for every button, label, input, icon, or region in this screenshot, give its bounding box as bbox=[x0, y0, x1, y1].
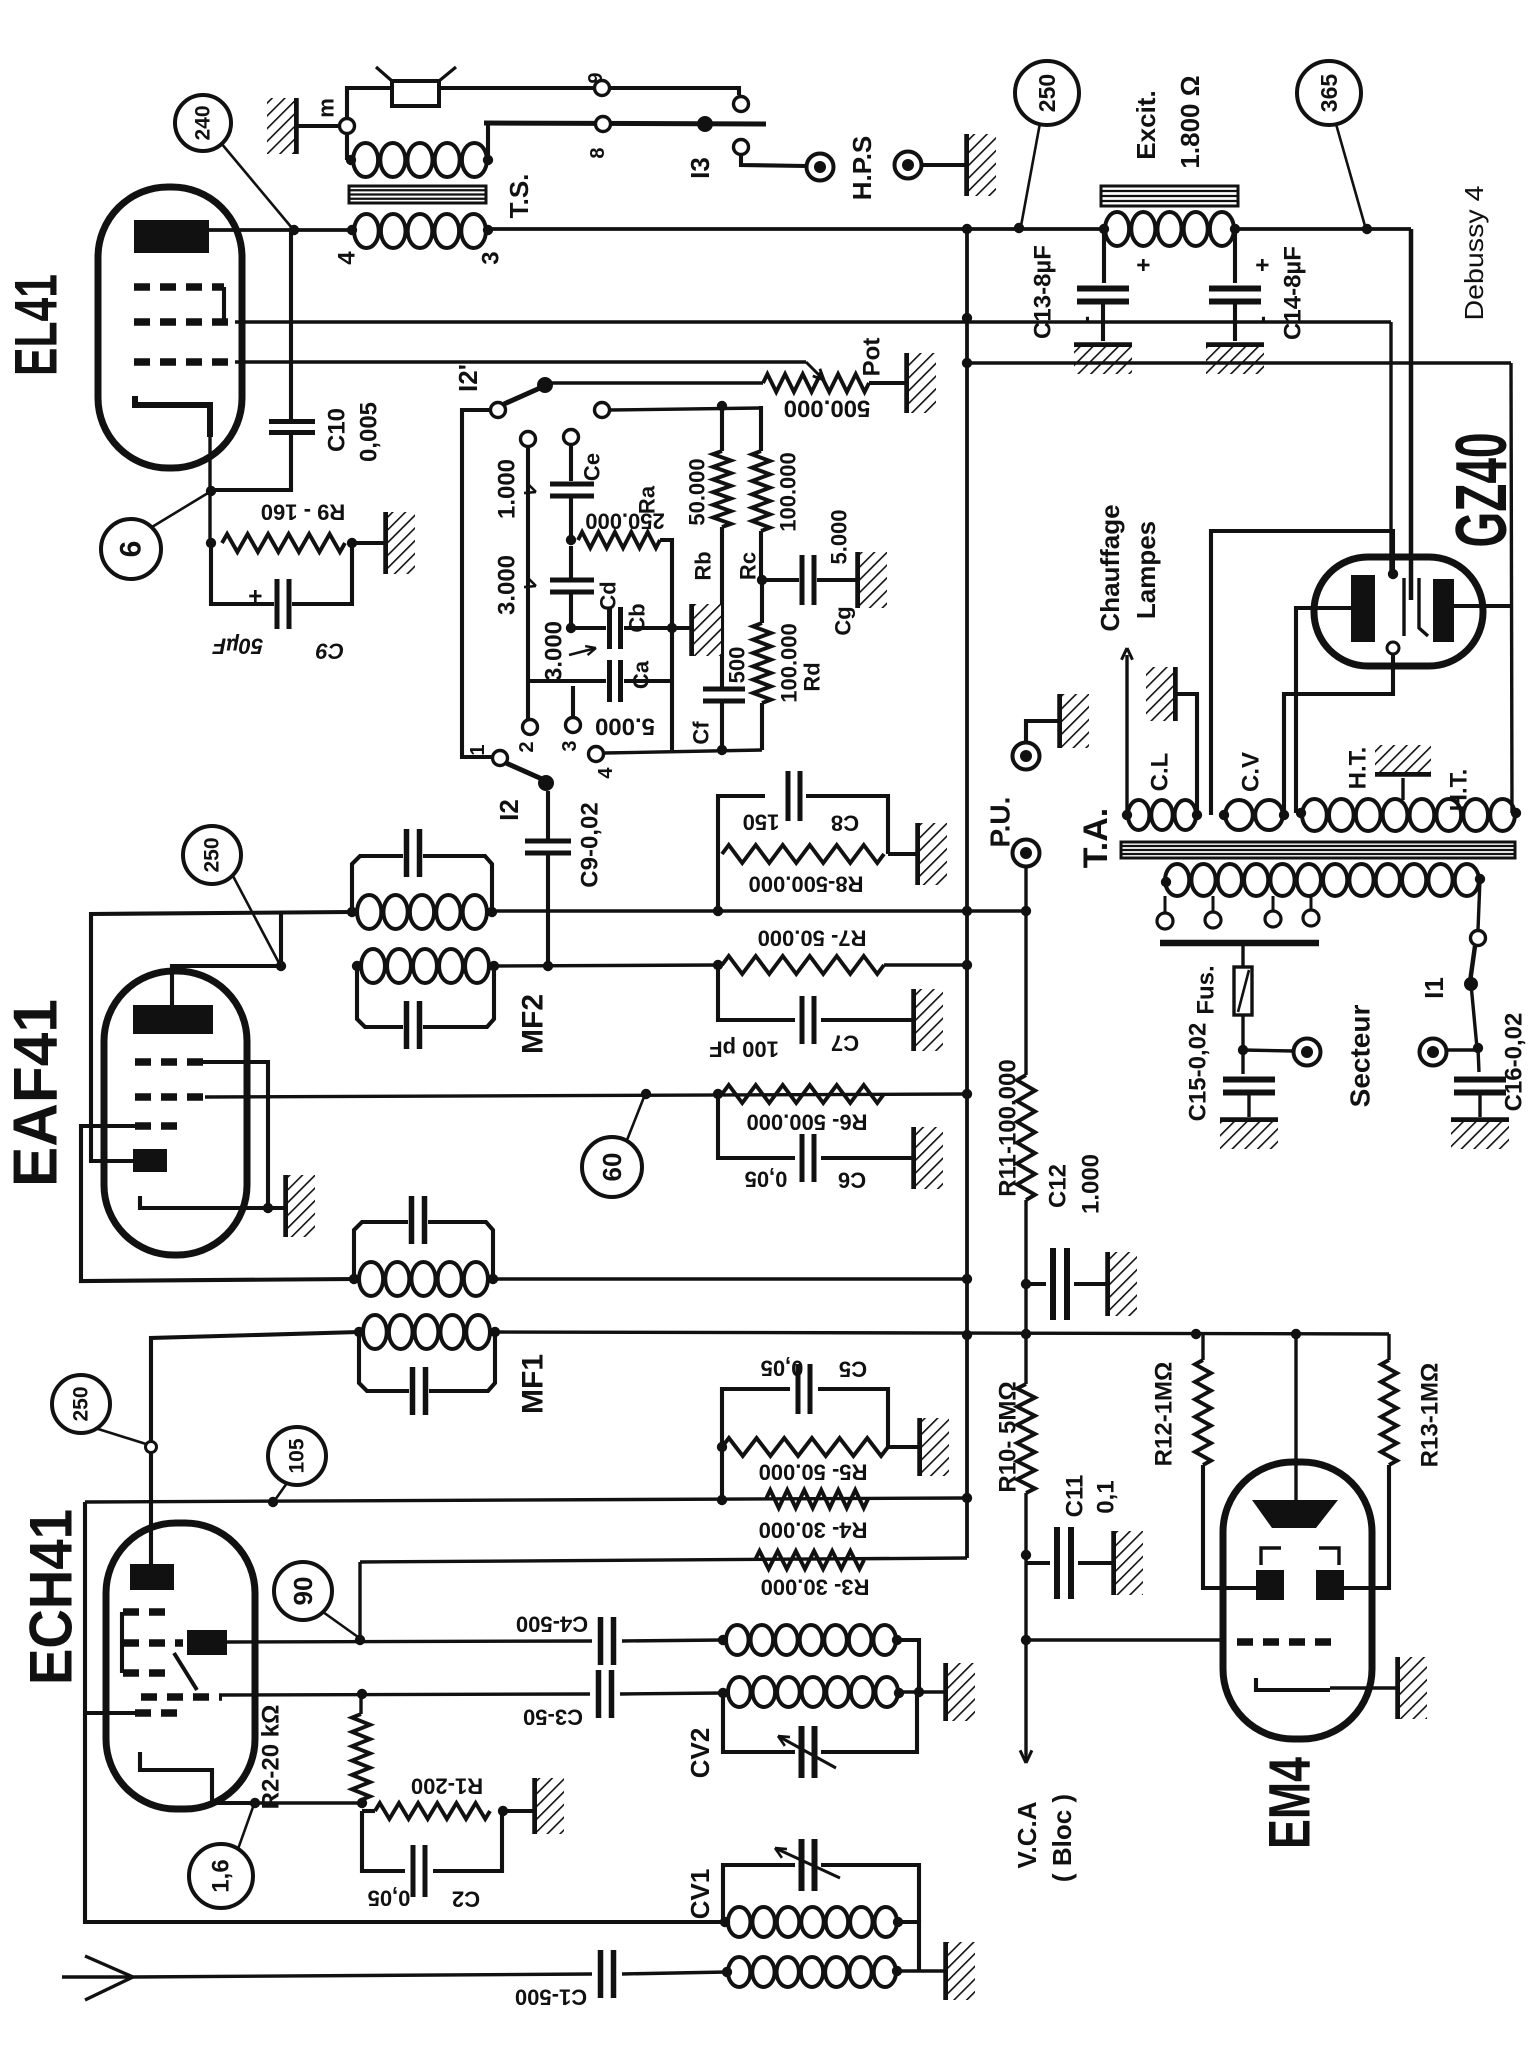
tube EM4 envelope bbox=[1223, 1462, 1372, 1739]
terminal col1 top bbox=[521, 432, 536, 447]
CV1 arrow bbox=[775, 1848, 840, 1878]
wire H.P.S to ground bbox=[922, 163, 965, 167]
svg-text:T.A.: T.A. bbox=[1077, 808, 1115, 868]
svg-text:Secteur: Secteur bbox=[1345, 1005, 1376, 1108]
wire 90 line bbox=[360, 1558, 967, 1562]
node C5 box bbox=[717, 1495, 727, 1505]
wire VCA arrow bbox=[1024, 1640, 1027, 1755]
node C11 bbox=[1021, 1550, 1031, 1560]
ground R9 bbox=[383, 512, 389, 574]
svg-text:C8: C8 bbox=[831, 811, 859, 836]
wire 105 line bbox=[85, 1498, 967, 1502]
svg-text:3: 3 bbox=[478, 251, 505, 264]
wire 322 corner down to GZ40 bbox=[1389, 322, 1392, 574]
capacitor C1-500 bbox=[598, 1950, 604, 1998]
capacitor MF2 secondary bbox=[404, 1001, 410, 1049]
ground Pot bbox=[904, 353, 910, 413]
coil antenna primary bbox=[728, 1957, 750, 1987]
callout line 60 bbox=[627, 1097, 644, 1140]
wire grid1 line y=362 to pot wiper bbox=[235, 360, 806, 363]
svg-text:R4- 30.000: R4- 30.000 bbox=[759, 1518, 868, 1543]
svg-text:2: 2 bbox=[516, 741, 538, 752]
tube EAF41 grid3 bracket bbox=[203, 1062, 268, 1208]
resistor R11-100.000 bbox=[1017, 1075, 1035, 1200]
MF2 secondary tank box bbox=[357, 966, 403, 1027]
svg-text:R11-100.000: R11-100.000 bbox=[995, 1059, 1022, 1196]
wire col1 vertical bbox=[526, 446, 530, 719]
coil T.S. primary bbox=[346, 155, 356, 165]
svg-text:Cf: Cf bbox=[689, 721, 714, 745]
wire Ce to Ra node bbox=[569, 496, 573, 540]
wire R1 ground bbox=[503, 1809, 533, 1813]
CV2 arrow bbox=[778, 1736, 836, 1768]
capacitor MF1 secondary bbox=[410, 1367, 416, 1415]
tube EL41 envelope bbox=[98, 187, 242, 468]
callout line 105 bbox=[275, 1483, 287, 1500]
svg-text:Chauffage: Chauffage bbox=[1095, 504, 1125, 631]
callout line 250 mid bbox=[233, 876, 279, 963]
tube EAF41 grid cap bbox=[133, 1149, 167, 1172]
wire PU upper to ground bbox=[1026, 721, 1058, 742]
wire anode bus y=230 bbox=[200, 228, 352, 232]
CV1 variable capacitor box bbox=[723, 1865, 795, 1922]
GZ40 filament bottom terminal bbox=[1387, 642, 1399, 654]
node 240 callout junction bbox=[289, 225, 299, 235]
coil C.V winding bbox=[1225, 800, 1253, 830]
resistor R3-30.000 on 90 line bbox=[755, 1551, 864, 1569]
svg-text:C.L: C.L bbox=[1147, 753, 1174, 792]
wire rail segment y=363 to right edge bbox=[967, 361, 1511, 364]
svg-text:C14-8µF: C14-8µF bbox=[1280, 246, 1307, 340]
capacitor Ca bbox=[528, 679, 606, 683]
svg-text:H.T.: H.T. bbox=[1345, 747, 1372, 790]
svg-text:Cd: Cd bbox=[596, 581, 621, 610]
ground C.L bbox=[1172, 667, 1178, 721]
svg-text:H.P.S: H.P.S bbox=[847, 136, 877, 201]
HT center tap ground bbox=[1401, 778, 1404, 800]
wire C10 drop from bus bbox=[289, 230, 293, 419]
svg-text:+: + bbox=[243, 589, 270, 603]
wire C9' to MF2 line bbox=[546, 853, 550, 966]
wire 90 vertical bbox=[358, 1562, 361, 1640]
svg-text:50.000: 50.000 bbox=[685, 458, 710, 525]
ground m terminal bbox=[293, 98, 299, 154]
wire bus secondary to Excit bbox=[488, 227, 1104, 231]
jack H.P.S right bbox=[895, 152, 922, 179]
node cathode bracket bbox=[263, 1203, 273, 1213]
tube EAF41 grid1 dashed bbox=[135, 1122, 183, 1130]
svg-text:Cb: Cb bbox=[625, 603, 650, 632]
GZ40 filament bbox=[1402, 578, 1405, 636]
svg-text:m: m bbox=[314, 98, 339, 118]
svg-text:Rc: Rc bbox=[736, 552, 761, 580]
capacitor C16-0,02 bbox=[1478, 1048, 1479, 1072]
ground R8 bbox=[915, 823, 921, 885]
capacitor C6 0,05 bbox=[718, 1094, 795, 1158]
tube EAF41 anode plate bbox=[133, 1005, 213, 1034]
coil CV1 tank bbox=[720, 1917, 730, 1927]
capacitor C10 0,005 bbox=[269, 419, 315, 424]
I3 lower contact bbox=[734, 140, 749, 155]
tube EL41 grid 2 bracket bbox=[222, 287, 226, 322]
svg-text:1.800 Ω: 1.800 Ω bbox=[1175, 75, 1205, 168]
GZ40 filament top node bbox=[1388, 569, 1398, 579]
svg-text:150: 150 bbox=[743, 810, 780, 835]
circle 365 bbox=[1297, 61, 1361, 125]
svg-text:3: 3 bbox=[559, 740, 581, 751]
coil Excit field 1800 ohm bbox=[1105, 212, 1129, 246]
wire MF1 secondary right long line bbox=[495, 1332, 1389, 1334]
node 60 callout bbox=[641, 1089, 651, 1099]
ground C14 bbox=[1206, 342, 1264, 348]
resistor Ra 250.000 bbox=[578, 532, 660, 548]
coil MF2 secondary bbox=[352, 961, 362, 971]
svg-text:R8-500.000: R8-500.000 bbox=[749, 872, 864, 897]
capacitor C9 50uF electrolytic bbox=[211, 543, 274, 604]
wire filament top to C.V left bbox=[1211, 531, 1393, 815]
tube EAF41 cathode bbox=[140, 1196, 284, 1208]
node 250 mid callout bbox=[276, 961, 286, 971]
terminal 2 bbox=[523, 720, 538, 735]
tube ECH41 cap diagonal bbox=[174, 1653, 197, 1690]
capacitor C15-0,02 bbox=[1241, 1050, 1244, 1074]
tube EL41 grid 3 (dashed) bbox=[134, 283, 224, 291]
svg-text:R2-20 kΩ: R2-20 kΩ bbox=[258, 1705, 285, 1810]
wire EM4 plate drop bbox=[1294, 1334, 1297, 1502]
capacitor C2 0,05 bbox=[362, 1811, 405, 1871]
svg-text:GZ40: GZ40 bbox=[1442, 433, 1522, 548]
EM4 cathode bbox=[1256, 1678, 1330, 1690]
svg-text:R7- 50.000: R7- 50.000 bbox=[758, 926, 867, 951]
wire I1 node to Secteur right jack bbox=[1447, 1048, 1478, 1051]
wire I2' pivot to Pot bbox=[545, 381, 763, 384]
node C12 bbox=[1021, 1279, 1031, 1289]
tube ECH41 grid5 dashed bbox=[135, 1709, 183, 1717]
capacitor C12 1.000 bbox=[1026, 1282, 1046, 1286]
potentiometer Pot 500.000 bbox=[763, 374, 869, 392]
svg-text:0,005: 0,005 bbox=[356, 402, 383, 462]
capacitor C3-50 bbox=[596, 1670, 602, 1718]
coil T.S. secondary bbox=[347, 225, 357, 235]
capacitor C7 100pF bbox=[718, 965, 795, 1020]
svg-text:I3: I3 bbox=[685, 157, 715, 179]
terminal 8 bbox=[596, 117, 611, 132]
resistor R12-1M bbox=[1201, 1334, 1204, 1360]
tube ECH41 grid cap bbox=[187, 1630, 227, 1655]
svg-text:Ra: Ra bbox=[635, 485, 660, 514]
ground Cg bbox=[855, 552, 861, 608]
svg-text:4: 4 bbox=[595, 767, 617, 779]
svg-text:C9-0,02: C9-0,02 bbox=[577, 802, 604, 887]
tube EL41 grid 1 (dashed) bbox=[134, 358, 235, 366]
jack P.U. lower bbox=[1013, 840, 1040, 867]
fuse Fus. bbox=[1241, 943, 1244, 967]
svg-text:Ce: Ce bbox=[580, 453, 605, 481]
svg-text:C9: C9 bbox=[315, 639, 344, 664]
wire EL41 cathode down to node 6 bbox=[208, 437, 211, 543]
capacitor C14 8uF bbox=[1233, 229, 1237, 283]
svg-text:C16-0,02: C16-0,02 bbox=[1501, 1013, 1528, 1112]
wire I3 to H.P.S jack bbox=[741, 155, 806, 166]
switch I3 pivot bbox=[697, 116, 713, 132]
wire filament bottom to C.V right bbox=[1284, 654, 1393, 815]
svg-text:Cg: Cg bbox=[831, 606, 856, 635]
wire grid cap lead bbox=[91, 1159, 133, 1163]
MF2 primary tank box bbox=[352, 856, 403, 912]
callout line 90 bbox=[323, 1612, 358, 1637]
tube ECH41 envelope bbox=[106, 1523, 255, 1809]
callout line circle 6 bbox=[152, 493, 208, 527]
wire C1 to antenna coil bbox=[622, 1972, 727, 1974]
wire m down to primary bbox=[345, 133, 349, 160]
MF1 primary tank box bbox=[354, 1222, 408, 1279]
wire anode node up to MF2 primary bbox=[279, 912, 283, 966]
svg-text:T.S.: T.S. bbox=[504, 174, 534, 219]
svg-text:6: 6 bbox=[115, 541, 148, 558]
stub terminal 3 bbox=[571, 686, 575, 717]
ground C13 bbox=[1074, 342, 1132, 348]
capacitor Cg 5.000 bbox=[762, 578, 799, 582]
svg-text:Ca: Ca bbox=[629, 660, 654, 689]
wire antenna coil to ground bbox=[897, 1969, 944, 1972]
svg-text:0,05: 0,05 bbox=[368, 1886, 411, 1911]
GZ40 anode left bbox=[1351, 575, 1375, 642]
capacitor C13 8uF bbox=[1102, 231, 1106, 283]
jack Secteur right bbox=[1420, 1039, 1447, 1066]
switch I2 pivot bbox=[538, 775, 554, 791]
svg-text:Fus.: Fus. bbox=[1193, 965, 1220, 1014]
wire B+ into GZ40 bbox=[1409, 229, 1414, 600]
tube EL41 anode plate bbox=[134, 220, 209, 253]
Ca variable arrow bbox=[569, 648, 596, 655]
coil C.L winding bbox=[1128, 800, 1149, 830]
core Excit bbox=[1101, 186, 1238, 206]
svg-text:R13-1MΩ: R13-1MΩ bbox=[1417, 1363, 1444, 1468]
ground C15 bbox=[1220, 1117, 1278, 1123]
coil MF2 primary bbox=[347, 907, 357, 917]
svg-text:100 pF: 100 pF bbox=[709, 1037, 779, 1062]
ground CV2 bbox=[943, 1663, 949, 1721]
EM4 electrode right bbox=[1316, 1570, 1344, 1600]
svg-text:Rd: Rd bbox=[800, 662, 825, 691]
ground P.U. bbox=[1057, 694, 1063, 748]
svg-text:C6: C6 bbox=[838, 1168, 866, 1193]
GZ40 anode right bbox=[1433, 579, 1454, 642]
wire I2' left down to I2 bbox=[462, 410, 492, 757]
wire osc grid line C4 bbox=[227, 1641, 592, 1642]
tube ECH41 left bracket bbox=[120, 1612, 124, 1673]
antenna symbol bbox=[85, 1956, 133, 1977]
wire rail x=968 bbox=[965, 229, 969, 1558]
svg-text:R12-1MΩ: R12-1MΩ bbox=[1151, 1362, 1178, 1467]
resistor Rd 100.000 bbox=[760, 580, 764, 623]
svg-text:CV2: CV2 bbox=[685, 1728, 715, 1779]
node rail 322 bbox=[962, 313, 972, 323]
capacitor CV2 variable bbox=[799, 1726, 805, 1778]
svg-text:EM4: EM4 bbox=[1258, 1757, 1323, 1849]
ground R5 bbox=[917, 1418, 923, 1476]
resistor R10-5M bbox=[1024, 1335, 1027, 1384]
wire 9 to I3 upper contact bbox=[610, 88, 739, 95]
EM4 grid dashed bbox=[1237, 1638, 1339, 1646]
coil T.A. primary bbox=[1165, 864, 1189, 896]
svg-text:Lampes: Lampes bbox=[1131, 521, 1161, 619]
wire VCA to EM4 grid bbox=[1026, 1638, 1223, 1641]
svg-text:240: 240 bbox=[192, 105, 215, 140]
circle 250 bottom bbox=[52, 1375, 110, 1433]
wire C10 bottom to cathode node bbox=[213, 433, 291, 490]
tube EL41 cathode bbox=[135, 396, 210, 437]
wire MF2 primary right to rail bbox=[492, 909, 967, 912]
wire grid5 to left line bbox=[86, 1711, 135, 1715]
EM4 target screen bbox=[1252, 1500, 1338, 1528]
node Rc/Rd/Cg bbox=[757, 575, 767, 585]
wire AVC vertical bbox=[1024, 866, 1027, 1075]
terminal m bbox=[340, 119, 355, 134]
circle 250 mid bbox=[183, 826, 241, 884]
wire R8 to ground bbox=[888, 852, 916, 856]
resistor Rb 50.000 bbox=[720, 406, 724, 451]
EM4 electrode left bbox=[1256, 1570, 1284, 1600]
resistor R7-50.000 bbox=[722, 956, 884, 974]
callout line circle 240 bbox=[221, 143, 292, 228]
svg-text:Pot: Pot bbox=[859, 338, 886, 377]
wire C4 to osc coil bbox=[622, 1640, 723, 1641]
MF1 secondary tank box bbox=[359, 1332, 409, 1391]
svg-text:50µF: 50µF bbox=[212, 634, 263, 659]
svg-text:500: 500 bbox=[725, 647, 750, 684]
terminal 3 bbox=[566, 718, 581, 733]
wire rail to PU line y=911 bbox=[967, 909, 1026, 912]
wire right edge down to HT bbox=[1511, 363, 1512, 813]
resistor R1-200 bbox=[375, 1803, 490, 1819]
ground EAF41 cathode bbox=[283, 1175, 289, 1237]
wire MF2 primary left to EAF grid line bbox=[91, 912, 352, 1161]
coil MF1 primary bbox=[349, 1274, 359, 1284]
switch I2' upper bbox=[491, 403, 506, 418]
wire net top to Rb/Rc bbox=[610, 408, 761, 410]
resistor Rc 100.000 bbox=[759, 406, 763, 451]
terminal 4 and bottom wire bbox=[589, 747, 604, 762]
circle 240 voltage bbox=[175, 95, 231, 151]
coil H.T. winding bbox=[1302, 799, 1327, 831]
coil MF1 secondary bbox=[354, 1327, 364, 1337]
node 105 callout bbox=[268, 1497, 278, 1507]
pot wiper arrow bbox=[806, 362, 823, 379]
svg-text:Rb: Rb bbox=[691, 551, 716, 580]
ground H.P.S bbox=[964, 134, 970, 196]
circle 6 voltage bbox=[101, 519, 161, 579]
svg-text:ECH41: ECH41 bbox=[18, 1509, 85, 1685]
capacitor CV1 variable bbox=[799, 1839, 805, 1891]
svg-text:R10- 5MΩ: R10- 5MΩ bbox=[995, 1381, 1022, 1492]
capacitor C9-0,02 bbox=[525, 839, 571, 844]
svg-text:0,05: 0,05 bbox=[745, 1167, 788, 1192]
capacitor C5 0,05 box bbox=[722, 1389, 790, 1500]
svg-text:I2: I2 bbox=[494, 799, 524, 821]
tube ECH41 grid rows dashed bbox=[123, 1608, 175, 1616]
wire osc coil right down bbox=[897, 1640, 919, 1692]
wire feedback line to CV1 bbox=[85, 1502, 723, 1922]
svg-text:3.000: 3.000 bbox=[541, 621, 568, 681]
ground EM4 bbox=[1395, 1657, 1401, 1719]
node 250 callout bbox=[1014, 223, 1024, 233]
resistor R4-30.000 on 105 line bbox=[766, 1490, 868, 1508]
wire R11 to C12 bbox=[1024, 1200, 1027, 1335]
ground C6 bbox=[911, 1127, 917, 1189]
resistor R8-500.000 with C8 box bbox=[718, 796, 765, 911]
wire EM4 cathode ground bbox=[1330, 1686, 1396, 1689]
ground antenna coil bbox=[943, 1942, 949, 2000]
svg-text:C2: C2 bbox=[452, 1887, 480, 1912]
callout line circle 250 top bbox=[1021, 123, 1040, 226]
resistor R2-20k vertical bbox=[352, 1714, 370, 1800]
svg-text:8: 8 bbox=[587, 147, 609, 158]
wire grid2 line y=322 bbox=[235, 320, 1391, 323]
node 365 callout bbox=[1362, 224, 1372, 234]
svg-text:C12: C12 bbox=[1045, 1164, 1072, 1208]
core T.A. bbox=[1121, 842, 1515, 858]
callout line 250 bottom bbox=[95, 1428, 146, 1444]
coil oscillator plate bbox=[726, 1625, 749, 1655]
node 90 bbox=[355, 1635, 365, 1645]
wire bus to corner 365 bbox=[1235, 227, 1411, 231]
wire EAF41 grid2 long line y=1095 bbox=[205, 1094, 967, 1097]
capacitor Cb bbox=[571, 626, 606, 630]
svg-text:I1: I1 bbox=[1419, 977, 1449, 999]
jack H.P.S left bbox=[807, 154, 834, 181]
svg-text:MF2: MF2 bbox=[517, 994, 550, 1054]
ground Cb bbox=[689, 604, 695, 656]
wire C3 to CV2 coil bbox=[620, 1693, 723, 1694]
speaker box bbox=[392, 81, 439, 106]
wire MF2 secondary right bbox=[494, 965, 718, 966]
wire left anode to HT left bbox=[1296, 608, 1351, 813]
svg-text:250: 250 bbox=[1034, 74, 1060, 112]
svg-text:+: + bbox=[1131, 258, 1158, 272]
svg-text:0,1: 0,1 bbox=[1093, 1480, 1120, 1513]
ground C12 bbox=[1105, 1252, 1111, 1316]
wire R9 to ground bbox=[352, 541, 385, 545]
wire speaker to terminal 9 bbox=[439, 86, 594, 90]
svg-text:3.000: 3.000 bbox=[494, 555, 521, 615]
svg-text:V.C.A: V.C.A bbox=[1012, 1801, 1042, 1868]
ground C16 bbox=[1451, 1117, 1509, 1123]
svg-text:365: 365 bbox=[1316, 74, 1342, 113]
lever I2 bbox=[506, 763, 542, 779]
wire fuse to Secteur left jack bbox=[1243, 1050, 1293, 1051]
svg-text:Excit.: Excit. bbox=[1131, 90, 1161, 159]
wire MF1 secondary left to ECH41 bbox=[151, 1332, 359, 1564]
resistor R6-500.000 bbox=[722, 1085, 884, 1103]
svg-text:P.U.: P.U. bbox=[985, 797, 1016, 848]
wire triode grid line C3 bbox=[222, 1694, 590, 1695]
svg-text:1.000: 1.000 bbox=[494, 459, 521, 519]
switch I2 contact bbox=[493, 751, 508, 766]
wire col2 to Ce bbox=[569, 444, 573, 481]
svg-text:100.000: 100.000 bbox=[777, 623, 802, 703]
svg-text:C5: C5 bbox=[839, 1357, 867, 1382]
svg-text:5.000: 5.000 bbox=[595, 713, 655, 740]
svg-text:500.000: 500.000 bbox=[784, 395, 871, 422]
svg-text:C15-0,02: C15-0,02 bbox=[1185, 1023, 1212, 1122]
svg-text:90: 90 bbox=[288, 1577, 318, 1606]
tap arrow 2 bbox=[524, 586, 536, 587]
svg-text:C10: C10 bbox=[324, 408, 351, 452]
jack P.U. upper bbox=[1013, 743, 1040, 770]
svg-text:250: 250 bbox=[70, 1386, 93, 1421]
wire antenna line bbox=[133, 1974, 592, 1977]
